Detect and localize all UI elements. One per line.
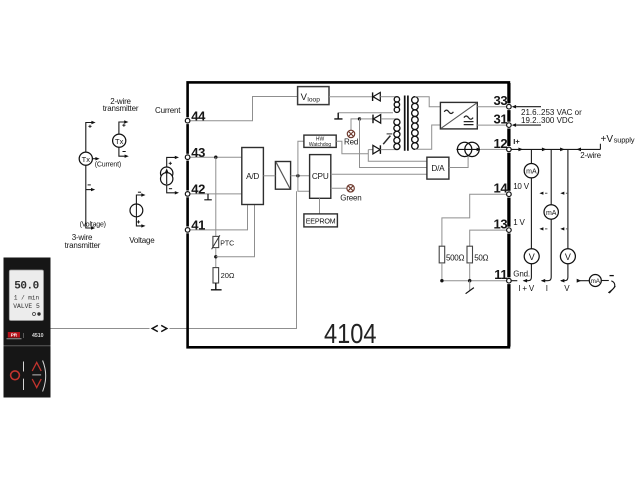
svg-text:Current: Current — [155, 106, 181, 115]
button up arrow — [32, 362, 41, 371]
block Vloop sense — [298, 87, 329, 105]
node junction on 43 wire — [214, 156, 217, 159]
svg-text:500Ω: 500Ω — [446, 253, 464, 262]
svg-text:(Voltage): (Voltage) — [80, 222, 106, 229]
wire AC/DC to terminal 31 — [477, 124, 507, 126]
svg-text:V: V — [565, 252, 571, 262]
svg-text:CPU: CPU — [312, 172, 329, 181]
wire secondary top to AC/DC — [415, 97, 440, 107]
svg-text:1 V: 1 V — [513, 218, 525, 227]
svg-text:supply: supply — [614, 136, 635, 145]
svg-text:1 / min: 1 / min — [14, 295, 40, 302]
svg-text:Voltage: Voltage — [129, 236, 155, 245]
svg-text:31: 31 — [494, 112, 508, 127]
svg-text:I + V: I + V — [518, 284, 535, 293]
block CPU U4 — [310, 155, 331, 199]
svg-text:2-wire: 2-wire — [580, 151, 601, 160]
block HW watchdog U3 — [304, 135, 336, 148]
terminal 43 — [185, 145, 205, 161]
dashed return arrows row 1 — [541, 192, 548, 194]
meter mA3 output loop — [577, 279, 582, 283]
svg-text:42: 42 — [191, 182, 205, 197]
diode D2 — [373, 115, 381, 124]
wire terminal 44 to Vloop — [189, 97, 298, 121]
terminal 11 — [494, 267, 511, 284]
svg-text:D/A: D/A — [431, 164, 445, 173]
terminal 14 — [494, 181, 512, 198]
keypad bracket — [43, 361, 46, 392]
display LCD screen — [9, 270, 43, 321]
terminal 12 — [494, 136, 512, 153]
wire 2-wire supply line — [512, 144, 601, 150]
wire 43 junction down to PTC — [215, 157, 217, 236]
switch chopper arrow at D3 — [383, 136, 390, 145]
wire terminal 13 to 50 ohm — [470, 230, 507, 246]
measurement rail 1 — [524, 149, 532, 280]
svg-text:V: V — [529, 252, 535, 262]
svg-text:PTC: PTC — [220, 241, 234, 248]
svg-text:A/D: A/D — [246, 172, 259, 181]
transformer T1 primary winding 2 — [394, 119, 400, 150]
svg-text:PR: PR — [11, 333, 18, 338]
svg-text:20Ω: 20Ω — [221, 271, 235, 280]
svg-text:Green: Green — [340, 193, 361, 202]
LCD icons — [33, 313, 36, 316]
wire Vloop to diode D1 — [329, 96, 372, 98]
svg-text:44: 44 — [191, 109, 206, 124]
svg-text:12: 12 — [494, 136, 508, 151]
wire terminal 43 to A/D — [189, 156, 242, 158]
diode D3 — [368, 145, 396, 154]
node serial link symbol <-> — [150, 324, 170, 334]
output transformer circles — [457, 142, 482, 156]
svg-text:transmitter: transmitter — [103, 104, 139, 113]
wire junction down to comm line — [298, 176, 310, 191]
resistor PTC — [212, 235, 220, 249]
diode D1 — [373, 92, 381, 101]
svg-text:Red: Red — [344, 137, 358, 146]
resistor 20 ohm — [213, 268, 219, 283]
transformer T1 primary winding 1 — [394, 97, 399, 113]
svg-text:13: 13 — [494, 217, 508, 232]
svg-text:50.0: 50.0 — [14, 280, 38, 292]
svg-text:mA: mA — [546, 210, 557, 217]
svg-text:EEPROM: EEPROM — [306, 216, 336, 225]
svg-text:(Current): (Current) — [95, 161, 121, 168]
wire ground rail to terminal 11 — [442, 263, 507, 281]
current source I1 — [161, 156, 180, 195]
node junction before CPU — [296, 174, 299, 177]
svg-text:mA: mA — [526, 169, 537, 176]
svg-text:43: 43 — [191, 145, 205, 160]
wire D2 to transformer primary 2 — [381, 118, 396, 120]
node junction 50 ohm ground — [468, 279, 471, 282]
svg-text:Watchdog: Watchdog — [309, 142, 332, 148]
wire output transformer to terminal 12 — [481, 148, 507, 150]
terminal 41 — [185, 218, 205, 234]
ground primary side — [338, 112, 393, 114]
LED red indicator — [347, 130, 354, 137]
meter V2 — [560, 249, 575, 264]
wire HW watchdog to red LED column — [336, 141, 368, 154]
svg-text:Tx: Tx — [82, 155, 91, 164]
main device box 4104 — [188, 82, 509, 347]
wire CPU to D/A (wire 1) — [331, 173, 427, 175]
supply arrow to terminal 33 — [512, 105, 516, 109]
wire comm line from display to CPU — [50, 191, 297, 328]
wire junction to diode D2 — [360, 118, 373, 120]
wire junction to red LED — [351, 119, 360, 130]
wire terminal 41 to A/D bottom — [189, 205, 248, 230]
isolation modulator U2 — [275, 162, 290, 190]
wire terminal 11 stub — [511, 280, 517, 282]
svg-text:+V: +V — [601, 134, 614, 145]
svg-text:I+: I+ — [513, 137, 520, 146]
ground below 20 ohm — [211, 283, 222, 290]
button ok red circle — [11, 371, 20, 380]
voltage source V1 — [130, 192, 146, 227]
terminal 42 — [185, 182, 205, 198]
svg-text:14: 14 — [494, 181, 509, 196]
node junction diode D2 input — [358, 117, 361, 120]
svg-text:33: 33 — [494, 93, 508, 108]
supply arrow to terminal 31 — [512, 123, 516, 127]
wire junction down to D/A (wire 2) — [360, 119, 427, 168]
button down arrow — [32, 379, 41, 388]
wire AC/DC to terminal 33 — [477, 106, 507, 108]
svg-text:Tx: Tx — [115, 137, 124, 146]
ground chassis stub below rail — [469, 281, 471, 291]
wire terminal 42 to A/D — [189, 193, 242, 195]
svg-text:41: 41 — [191, 218, 205, 233]
LED green indicator — [347, 185, 354, 192]
wire CPU to EEPROM — [319, 198, 321, 214]
transformer T1 secondary winding — [412, 97, 419, 150]
node junction below PTC — [214, 255, 217, 258]
wire junction up to HW watchdog — [298, 141, 304, 176]
logo PR red — [8, 332, 20, 338]
svg-text:V: V — [564, 284, 570, 293]
terminal 13 — [494, 217, 512, 234]
transmitter TX1 (2-wire) — [113, 120, 129, 158]
wire D1 to transformer primary 1 — [380, 96, 396, 98]
svg-text:11: 11 — [494, 267, 507, 282]
svg-text:4510: 4510 — [32, 333, 44, 339]
op-amp block A/D converter U1 — [242, 148, 264, 205]
panel separator — [4, 345, 51, 347]
measurement rail 2 — [542, 149, 551, 280]
resistor 50 ohm — [467, 246, 473, 263]
wire PTC to 20 ohm — [215, 248, 217, 268]
wire CPU to green LED — [331, 187, 347, 189]
block EEPROM U5 — [304, 214, 338, 227]
block D/A converter U7 — [427, 157, 449, 179]
svg-text:50Ω: 50Ω — [474, 253, 488, 262]
svg-text:I: I — [546, 284, 548, 293]
display unit 4510 panel — [4, 258, 51, 398]
svg-text:transmitter: transmitter — [65, 241, 101, 250]
svg-text:10 V: 10 V — [513, 182, 530, 191]
node junction 500 ohm ground — [440, 279, 443, 282]
keypad tick marks — [23, 362, 25, 391]
meter V1 — [524, 249, 539, 264]
wire A/D to modulator — [263, 175, 275, 177]
svg-text:19.2..300 VDC: 19.2..300 VDC — [521, 116, 574, 125]
dashed return arrows row 2 — [541, 228, 548, 230]
terminal 31 — [494, 112, 512, 129]
wire D/A to output transformer — [449, 157, 468, 168]
wire modulator to CPU — [291, 175, 310, 177]
svg-text:Gnd.: Gnd. — [513, 270, 530, 279]
transformer T1 core — [405, 96, 408, 151]
ground analog reference at 42 wire — [204, 194, 212, 200]
wire terminal 14 to 500 ohm — [442, 194, 507, 246]
svg-text:loop: loop — [307, 97, 320, 104]
keypad mid dash — [32, 374, 41, 376]
svg-text:4104: 4104 — [324, 318, 377, 349]
svg-text:mA: mA — [591, 278, 601, 285]
transmitter TX2 (3-wire) — [79, 121, 99, 230]
meter mA1 — [524, 164, 538, 178]
terminal 33 — [494, 93, 512, 110]
terminal 44 — [185, 109, 206, 125]
measurement rail 3 — [561, 149, 568, 280]
power supply AC/DC converter U6 — [440, 102, 477, 128]
wire PTC junction to A/D bottom — [216, 205, 255, 257]
wire secondary bottom to AC/DC — [415, 125, 440, 149]
resistor 500 ohm — [439, 246, 445, 263]
wire diode D3 node down to D/A (wire 3) — [368, 150, 427, 162]
meter mA2 — [544, 205, 558, 219]
svg-text:VALVE 5: VALVE 5 — [13, 303, 40, 310]
